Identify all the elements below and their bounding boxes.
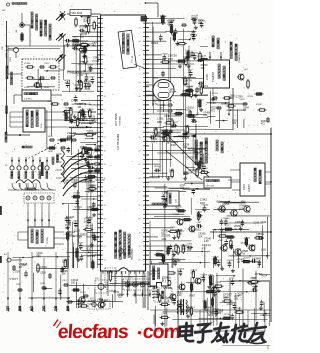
svg-text:51: 51 — [104, 246, 106, 248]
svg-text:C526: C526 — [40, 272, 46, 275]
svg-text:2.2K: 2.2K — [67, 134, 73, 138]
svg-text:VT985: VT985 — [163, 286, 172, 290]
svg-text:103: 103 — [80, 36, 85, 39]
svg-text:L990: L990 — [227, 302, 234, 306]
svg-text:L792: L792 — [230, 278, 236, 280]
svg-text:R520: R520 — [47, 101, 53, 103]
svg-text:com: com — [142, 321, 181, 343]
svg-text:680: 680 — [37, 255, 42, 258]
svg-text:1K: 1K — [94, 239, 97, 242]
svg-text:472: 472 — [261, 123, 266, 126]
svg-text:L441 L442: L441 L442 — [124, 277, 134, 279]
svg-text:CF514: CF514 — [247, 96, 254, 98]
svg-text:VD417: VD417 — [256, 104, 263, 106]
svg-text:VT553: VT553 — [93, 253, 102, 257]
svg-text:330: 330 — [168, 57, 173, 61]
svg-text:64: 64 — [139, 178, 141, 180]
svg-text:ZD503: ZD503 — [154, 166, 161, 168]
svg-text:R695: R695 — [101, 299, 109, 303]
svg-text:52: 52 — [139, 123, 141, 125]
svg-text:C456: C456 — [71, 99, 79, 103]
svg-text:C716: C716 — [189, 283, 195, 285]
svg-text:680: 680 — [182, 248, 187, 251]
svg-text:R104: R104 — [261, 274, 267, 277]
svg-text:L136: L136 — [78, 242, 84, 244]
svg-text:L149: L149 — [84, 74, 90, 76]
svg-text:AC100V: AC100V — [43, 304, 46, 312]
svg-text:24: 24 — [104, 123, 106, 125]
svg-text:1K: 1K — [234, 228, 237, 231]
svg-text:1/2W: 1/2W — [83, 20, 89, 23]
svg-text:472: 472 — [190, 36, 195, 40]
svg-text:L183: L183 — [162, 191, 169, 195]
svg-text:39: 39 — [104, 191, 106, 193]
svg-text:472: 472 — [186, 109, 191, 112]
svg-text:L873: L873 — [87, 254, 94, 258]
svg-text:2.2K: 2.2K — [151, 273, 156, 276]
svg-text:C954: C954 — [222, 202, 230, 206]
svg-text:CPU03: CPU03 — [47, 236, 49, 244]
svg-text:VT378: VT378 — [186, 156, 194, 159]
svg-text:61: 61 — [139, 164, 141, 166]
svg-text:10K: 10K — [187, 249, 192, 252]
svg-text:47: 47 — [78, 236, 82, 240]
svg-text:100: 100 — [71, 282, 76, 285]
svg-text:C233: C233 — [86, 81, 92, 83]
svg-text:31: 31 — [139, 28, 141, 30]
svg-text:9: 9 — [104, 55, 105, 57]
svg-text:472: 472 — [76, 302, 81, 306]
svg-text:Q528: Q528 — [79, 26, 85, 28]
svg-text:TOSHIBA: TOSHIBA — [119, 116, 122, 126]
svg-text:R430: R430 — [44, 87, 50, 89]
svg-text:34: 34 — [139, 41, 141, 43]
svg-text:VT977: VT977 — [9, 277, 18, 281]
svg-text:45: 45 — [104, 219, 106, 221]
svg-text:C785: C785 — [236, 94, 244, 98]
svg-text:49: 49 — [139, 110, 141, 112]
svg-text:48: 48 — [104, 232, 106, 234]
svg-text:1K: 1K — [184, 134, 187, 137]
svg-text:VT636: VT636 — [71, 179, 79, 182]
svg-text:10K: 10K — [152, 135, 157, 138]
svg-text:Q782: Q782 — [255, 272, 263, 276]
svg-text:VD911: VD911 — [192, 228, 201, 232]
svg-text:6: 6 — [104, 41, 105, 43]
svg-text:18: 18 — [104, 96, 106, 98]
svg-text:73: 73 — [139, 219, 141, 221]
svg-text:L740: L740 — [78, 74, 84, 77]
svg-text:VT962: VT962 — [138, 282, 147, 286]
svg-text:102: 102 — [65, 227, 70, 230]
svg-text:104: 104 — [68, 234, 73, 237]
svg-text:IC601: IC601 — [244, 183, 246, 190]
svg-text:55: 55 — [139, 137, 141, 139]
svg-text:(TDA8357): (TDA8357) — [238, 52, 241, 63]
svg-text:Q447: Q447 — [67, 215, 75, 219]
svg-text:TB1238AN: TB1238AN — [131, 248, 134, 260]
svg-text:2.2K: 2.2K — [176, 112, 181, 114]
svg-text:10K: 10K — [177, 306, 182, 309]
svg-text:472: 472 — [210, 109, 215, 113]
svg-text:104: 104 — [188, 172, 193, 175]
svg-text:104: 104 — [203, 114, 208, 117]
svg-text:103: 103 — [208, 314, 213, 317]
svg-text:L571: L571 — [95, 168, 101, 171]
svg-text:4 OUT: 4 OUT — [20, 306, 22, 312]
svg-text:R276: R276 — [188, 148, 194, 151]
svg-text:C190: C190 — [253, 222, 259, 225]
svg-text:VD470: VD470 — [95, 178, 105, 182]
svg-text:0.1: 0.1 — [162, 279, 167, 283]
svg-text:10K: 10K — [198, 235, 203, 238]
svg-text:103: 103 — [200, 201, 205, 205]
svg-text:VT925: VT925 — [182, 137, 190, 140]
svg-text:223: 223 — [95, 148, 100, 151]
svg-text:C371: C371 — [184, 126, 190, 128]
svg-text:GND: GND — [68, 307, 70, 312]
svg-text:Q801: Q801 — [6, 52, 8, 58]
svg-text:680: 680 — [157, 120, 162, 124]
svg-text:ZD388: ZD388 — [173, 260, 181, 263]
svg-text:1K: 1K — [237, 261, 240, 264]
svg-text:42: 42 — [104, 205, 106, 207]
svg-text:VT643: VT643 — [197, 56, 204, 58]
svg-text:4.7K: 4.7K — [252, 260, 258, 264]
svg-text:472: 472 — [64, 182, 69, 185]
svg-text:10K: 10K — [62, 273, 67, 276]
svg-text:1K: 1K — [167, 300, 170, 303]
svg-text:10K: 10K — [251, 280, 255, 282]
svg-text:82: 82 — [139, 260, 141, 262]
svg-text:12: 12 — [104, 69, 106, 71]
svg-text:472: 472 — [89, 302, 94, 306]
svg-text:10K: 10K — [151, 140, 156, 143]
svg-text:Q327: Q327 — [89, 76, 95, 78]
svg-text:40: 40 — [139, 69, 141, 71]
svg-text:KIA TB1238N: KIA TB1238N — [116, 134, 120, 150]
svg-text:103: 103 — [161, 237, 166, 241]
svg-text:CF321: CF321 — [40, 266, 48, 269]
svg-text:37: 37 — [139, 55, 141, 57]
svg-text:2.2K: 2.2K — [177, 294, 182, 297]
svg-text:76: 76 — [139, 232, 141, 234]
svg-text:ZD189: ZD189 — [186, 86, 193, 88]
svg-text:43: 43 — [139, 82, 141, 84]
svg-text:TDA8357: TDA8357 — [212, 71, 215, 82]
svg-text:103: 103 — [84, 220, 89, 224]
svg-text:VT513: VT513 — [75, 206, 83, 209]
svg-text:330: 330 — [216, 311, 221, 315]
svg-text:472: 472 — [153, 102, 158, 106]
svg-text:IC02: IC02 — [176, 199, 178, 203]
svg-text:103: 103 — [239, 207, 244, 210]
svg-text:3CH TB(5B): 3CH TB(5B) — [115, 113, 118, 126]
svg-text:Q267: Q267 — [162, 313, 168, 315]
svg-text:R907: R907 — [190, 295, 196, 298]
svg-text:Q945: Q945 — [80, 145, 88, 149]
svg-text:4: 4 — [14, 149, 15, 151]
svg-text:1K: 1K — [19, 265, 23, 269]
svg-text:1K: 1K — [242, 253, 245, 256]
svg-text:2.2K: 2.2K — [210, 101, 216, 105]
svg-text:103: 103 — [180, 187, 185, 190]
svg-text:Q622: Q622 — [261, 221, 268, 224]
svg-text:L275: L275 — [202, 301, 208, 303]
svg-text:IC301: IC301 — [206, 73, 209, 80]
svg-text:2.2K: 2.2K — [227, 262, 232, 264]
svg-text:21: 21 — [104, 110, 106, 112]
svg-text:VD680: VD680 — [202, 205, 209, 207]
svg-text:30: 30 — [104, 150, 106, 152]
svg-text:Q971: Q971 — [201, 84, 209, 88]
svg-text:104: 104 — [77, 106, 82, 109]
svg-text:103: 103 — [205, 309, 210, 312]
svg-text:27: 27 — [104, 137, 106, 139]
svg-text:VT484: VT484 — [24, 63, 31, 65]
svg-text:67: 67 — [139, 191, 141, 193]
svg-text:GND: GND — [8, 307, 10, 312]
svg-text:C177: C177 — [225, 225, 231, 227]
svg-text:100: 100 — [201, 67, 206, 70]
svg-text:1K: 1K — [199, 151, 202, 154]
svg-text:1/2W: 1/2W — [84, 88, 90, 91]
svg-text:10K: 10K — [230, 97, 235, 100]
svg-text:SIF 6.0M: SIF 6.0M — [206, 186, 214, 188]
svg-text:3: 3 — [104, 28, 105, 30]
svg-text:100: 100 — [171, 143, 176, 147]
svg-text:100: 100 — [78, 306, 83, 309]
svg-text:47: 47 — [202, 246, 206, 250]
svg-text:100: 100 — [198, 21, 203, 24]
svg-text:5-V REC: 5-V REC — [24, 99, 33, 101]
svg-text:46: 46 — [139, 96, 141, 98]
svg-text:472: 472 — [167, 22, 172, 26]
svg-text:C762: C762 — [117, 294, 123, 297]
svg-text:58: 58 — [139, 150, 141, 152]
svg-text:102: 102 — [72, 46, 77, 50]
svg-text:680: 680 — [223, 296, 228, 300]
svg-text:C80: C80 — [2, 47, 4, 50]
svg-text:223: 223 — [169, 91, 174, 94]
svg-text:10K: 10K — [87, 112, 91, 114]
svg-text:VT304: VT304 — [173, 214, 180, 216]
svg-text:C191: C191 — [10, 56, 12, 62]
svg-text:C261: C261 — [44, 63, 50, 65]
svg-text:elecfans: elecfans — [57, 321, 130, 343]
svg-text:VD124: VD124 — [220, 232, 227, 234]
svg-text:103: 103 — [234, 297, 239, 300]
svg-text:MF1 6226: MF1 6226 — [72, 12, 83, 15]
svg-text:C759: C759 — [13, 270, 21, 274]
svg-text:R537: R537 — [75, 70, 83, 74]
svg-text:LA4267: LA4267 — [248, 183, 251, 192]
svg-text:CF486: CF486 — [247, 244, 256, 248]
svg-text:VT650: VT650 — [217, 208, 226, 212]
svg-text:C834: C834 — [151, 41, 159, 45]
svg-text:33: 33 — [104, 164, 106, 166]
svg-text:4.7K: 4.7K — [73, 39, 78, 41]
svg-text:54: 54 — [104, 260, 106, 262]
svg-text:70: 70 — [139, 205, 141, 207]
svg-text:104: 104 — [75, 86, 80, 90]
svg-text:1K: 1K — [185, 82, 189, 86]
svg-text:15: 15 — [104, 82, 106, 84]
svg-text:SCL: SCL — [56, 308, 58, 312]
svg-text:ZD466: ZD466 — [243, 238, 250, 240]
svg-text:L181: L181 — [261, 249, 267, 252]
svg-text:79: 79 — [139, 246, 141, 248]
svg-text:10K: 10K — [178, 232, 183, 235]
svg-text:100: 100 — [175, 208, 180, 211]
svg-text:CF883: CF883 — [223, 218, 230, 220]
